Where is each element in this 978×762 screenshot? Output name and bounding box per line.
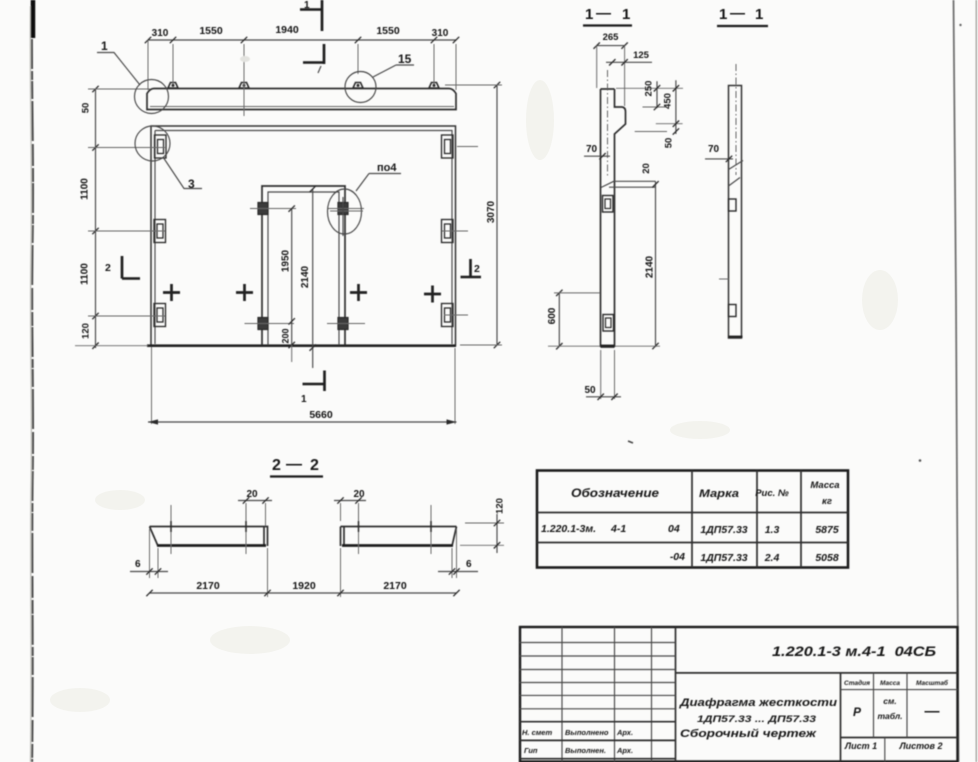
svg-text:1100: 1100 bbox=[80, 178, 91, 200]
svg-text:1550: 1550 bbox=[376, 25, 400, 37]
svg-text:2140: 2140 bbox=[300, 265, 311, 288]
svg-text:4-1: 4-1 bbox=[610, 523, 626, 535]
svg-text:Рис. №: Рис. № bbox=[755, 488, 789, 499]
svg-text:Марка: Марка bbox=[699, 488, 739, 500]
svg-text:5058: 5058 bbox=[815, 552, 839, 564]
svg-text:1: 1 bbox=[755, 6, 763, 23]
svg-text:50: 50 bbox=[664, 138, 675, 149]
svg-text:1.220.1-3 м.4-1 04СБ: 1.220.1-3 м.4-1 04СБ bbox=[772, 643, 936, 659]
svg-text:125: 125 bbox=[633, 50, 650, 61]
svg-text:310: 310 bbox=[152, 28, 169, 39]
svg-text:600: 600 bbox=[547, 307, 558, 324]
svg-text:—: — bbox=[730, 5, 745, 22]
svg-text:кг: кг bbox=[822, 496, 832, 507]
svg-text:70: 70 bbox=[586, 144, 598, 155]
svg-text:15: 15 bbox=[398, 52, 412, 66]
svg-text:200: 200 bbox=[280, 328, 290, 343]
svg-text:2: 2 bbox=[105, 262, 111, 274]
svg-text:1: 1 bbox=[719, 6, 727, 23]
svg-text:1100: 1100 bbox=[80, 263, 91, 285]
svg-text:2170: 2170 bbox=[383, 580, 407, 592]
svg-text:1ДП57.33: 1ДП57.33 bbox=[700, 524, 747, 536]
svg-text:—: — bbox=[596, 5, 611, 22]
svg-text:1: 1 bbox=[585, 6, 593, 23]
svg-text:70: 70 bbox=[708, 144, 720, 155]
svg-text:Масштаб: Масштаб bbox=[916, 679, 949, 687]
svg-text:Н. смет: Н. смет bbox=[522, 728, 552, 737]
svg-text:5660: 5660 bbox=[309, 409, 333, 421]
svg-text:250: 250 bbox=[644, 81, 655, 97]
svg-text:1: 1 bbox=[622, 6, 630, 23]
svg-text:2.4: 2.4 bbox=[764, 552, 780, 564]
svg-text:табл.: табл. bbox=[877, 711, 902, 721]
svg-text:Листов 2: Листов 2 bbox=[898, 741, 942, 751]
svg-text:120: 120 bbox=[495, 498, 506, 514]
svg-text:120: 120 bbox=[81, 323, 92, 339]
svg-text:3070: 3070 bbox=[486, 200, 497, 223]
svg-text:6: 6 bbox=[135, 559, 141, 570]
svg-text:—: — bbox=[925, 703, 940, 720]
svg-text:Гип: Гип bbox=[524, 746, 538, 755]
svg-text:50: 50 bbox=[81, 103, 92, 114]
svg-text:Лист 1: Лист 1 bbox=[844, 741, 877, 751]
svg-text:1.220.1-3м.: 1.220.1-3м. bbox=[541, 523, 596, 535]
svg-text:50: 50 bbox=[584, 385, 596, 396]
svg-text:1: 1 bbox=[101, 39, 108, 53]
svg-text:2140: 2140 bbox=[645, 255, 656, 278]
svg-text:Р: Р bbox=[853, 705, 862, 719]
svg-text:1ДП57.33: 1ДП57.33 bbox=[700, 552, 747, 564]
svg-text:-04: -04 bbox=[670, 551, 685, 563]
svg-text:Сборочный чертеж: Сборочный чертеж bbox=[680, 728, 817, 740]
svg-text:1550: 1550 bbox=[199, 25, 223, 37]
svg-text:20: 20 bbox=[246, 489, 258, 500]
svg-text:—: — bbox=[286, 456, 302, 473]
svg-text:по4: по4 bbox=[377, 162, 397, 174]
svg-text:Стадия: Стадия bbox=[844, 679, 870, 687]
svg-text:2: 2 bbox=[474, 263, 480, 275]
svg-text:Арх.: Арх. bbox=[616, 746, 633, 755]
svg-text:265: 265 bbox=[603, 32, 620, 43]
svg-text:1940: 1940 bbox=[275, 24, 299, 36]
svg-text:Масса: Масса bbox=[810, 480, 839, 491]
svg-text:Масса: Масса bbox=[880, 680, 900, 687]
svg-text:Арх.: Арх. bbox=[616, 728, 633, 737]
svg-text:310: 310 bbox=[432, 28, 449, 39]
svg-text:04: 04 bbox=[668, 523, 680, 535]
svg-text:Диафрагма жесткости: Диафрагма жесткости bbox=[679, 697, 838, 709]
svg-text:1920: 1920 bbox=[292, 580, 316, 592]
svg-text:2: 2 bbox=[310, 457, 319, 474]
svg-text:1: 1 bbox=[304, 0, 310, 11]
svg-text:1: 1 bbox=[301, 394, 307, 405]
svg-text:20: 20 bbox=[353, 489, 365, 500]
svg-text:Обозначение: Обозначение bbox=[571, 486, 659, 500]
svg-text:см.: см. bbox=[883, 696, 896, 706]
svg-text:Выполнено: Выполнено bbox=[565, 728, 609, 737]
svg-text:2170: 2170 bbox=[196, 580, 220, 592]
svg-text:1.3: 1.3 bbox=[765, 524, 780, 536]
svg-text:450: 450 bbox=[663, 93, 674, 109]
svg-text:1ДП57.33 ... ДП57.33: 1ДП57.33 ... ДП57.33 bbox=[697, 714, 816, 724]
svg-text:5875: 5875 bbox=[815, 524, 839, 536]
svg-text:1950: 1950 bbox=[281, 249, 292, 272]
svg-text:20: 20 bbox=[641, 163, 652, 174]
svg-text:2: 2 bbox=[272, 457, 281, 474]
svg-text:Выполнен.: Выполнен. bbox=[565, 746, 606, 755]
svg-text:6: 6 bbox=[466, 559, 472, 570]
